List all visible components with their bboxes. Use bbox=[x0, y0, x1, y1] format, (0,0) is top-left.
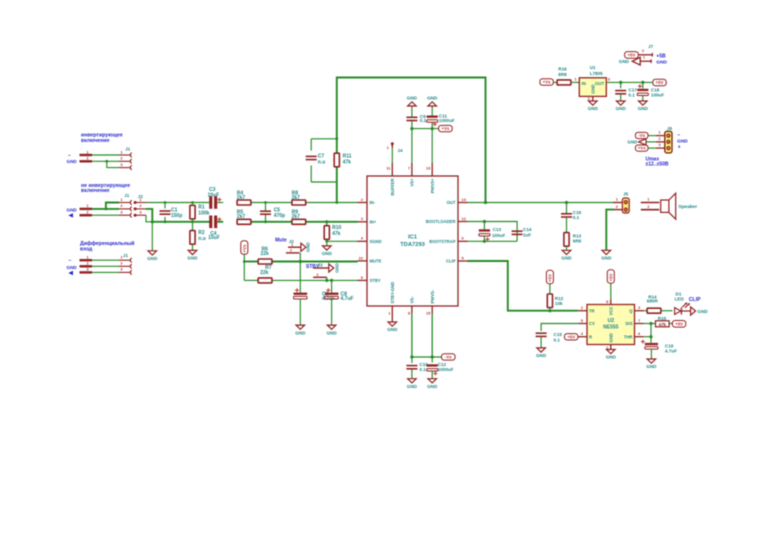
svg-text:-Vs: -Vs bbox=[638, 133, 645, 138]
svg-text:3: 3 bbox=[608, 77, 611, 82]
svg-text:n.u: n.u bbox=[318, 159, 326, 165]
svg-text:6R8: 6R8 bbox=[573, 239, 582, 244]
svg-text:J3: J3 bbox=[317, 262, 323, 267]
svg-text:BOOTSTRAP: BOOTSTRAP bbox=[429, 239, 455, 244]
svg-text:3: 3 bbox=[120, 162, 123, 167]
svg-text:GND: GND bbox=[147, 256, 158, 261]
svg-text:150p: 150p bbox=[171, 213, 182, 219]
svg-text:TDA7293: TDA7293 bbox=[400, 242, 426, 248]
svg-text:GND: GND bbox=[67, 207, 78, 212]
svg-text:2: 2 bbox=[139, 203, 142, 208]
svg-text:3: 3 bbox=[139, 210, 142, 215]
svg-text:1: 1 bbox=[120, 149, 123, 154]
svg-text:3: 3 bbox=[658, 142, 661, 147]
svg-text:STBY-GND: STBY-GND bbox=[390, 282, 395, 304]
svg-text:J1: J1 bbox=[123, 253, 129, 258]
svg-text:13: 13 bbox=[426, 166, 431, 171]
svg-text:J6: J6 bbox=[667, 126, 673, 131]
svg-text:C15: C15 bbox=[554, 332, 563, 337]
svg-text:–: – bbox=[69, 258, 72, 264]
svg-text:15: 15 bbox=[426, 311, 431, 316]
svg-text:DIS: DIS bbox=[626, 321, 633, 326]
svg-text:1uF: 1uF bbox=[523, 233, 531, 238]
svg-text:n.u: n.u bbox=[198, 236, 206, 242]
svg-text:C14: C14 bbox=[523, 227, 532, 232]
svg-text:2: 2 bbox=[581, 305, 584, 310]
svg-text:11: 11 bbox=[386, 166, 391, 171]
svg-text:+5V: +5V bbox=[656, 80, 664, 85]
svg-text:2k7: 2k7 bbox=[237, 195, 246, 201]
svg-text:2: 2 bbox=[642, 48, 645, 53]
svg-text:2: 2 bbox=[361, 197, 364, 202]
svg-text:+5B: +5B bbox=[656, 53, 666, 59]
svg-text:7: 7 bbox=[638, 318, 641, 323]
svg-text:10uF: 10uF bbox=[208, 235, 220, 241]
svg-text:GND: GND bbox=[67, 159, 78, 164]
svg-text:2: 2 bbox=[647, 204, 650, 209]
svg-text:THR: THR bbox=[624, 334, 633, 339]
svg-text:2k7: 2k7 bbox=[237, 214, 246, 220]
svg-text:0.1: 0.1 bbox=[554, 337, 561, 342]
svg-text:GND: GND bbox=[67, 265, 78, 270]
svg-text:GND: GND bbox=[561, 256, 572, 261]
svg-text:3: 3 bbox=[120, 267, 123, 272]
svg-text:PWVS-: PWVS- bbox=[430, 289, 435, 303]
svg-text:3: 3 bbox=[361, 216, 364, 221]
svg-text:J7: J7 bbox=[648, 44, 654, 49]
svg-text:1: 1 bbox=[574, 77, 577, 82]
svg-text:4.7uF: 4.7uF bbox=[665, 349, 677, 354]
svg-text:GND: GND bbox=[606, 355, 617, 360]
svg-text:GND: GND bbox=[387, 327, 398, 332]
svg-text:8: 8 bbox=[606, 299, 609, 304]
svg-text:100uF: 100uF bbox=[492, 233, 505, 238]
svg-text:+Vs: +Vs bbox=[242, 244, 247, 252]
svg-text:TR: TR bbox=[589, 308, 595, 313]
svg-text:GND: GND bbox=[590, 84, 595, 93]
svg-text:4: 4 bbox=[361, 236, 364, 241]
svg-text:47k: 47k bbox=[659, 322, 667, 327]
svg-text:GND: GND bbox=[656, 60, 667, 66]
svg-text:+5V: +5V bbox=[548, 274, 553, 282]
svg-text:включение: включение bbox=[81, 138, 110, 144]
svg-text:Speaker: Speaker bbox=[678, 204, 697, 210]
svg-text:6: 6 bbox=[638, 331, 641, 336]
svg-text:VS-: VS- bbox=[410, 296, 415, 304]
svg-text:BOOTLOADER: BOOTLOADER bbox=[426, 219, 456, 224]
svg-text:U2: U2 bbox=[608, 318, 615, 324]
svg-text:8: 8 bbox=[408, 311, 411, 316]
svg-text:2: 2 bbox=[658, 136, 661, 141]
svg-text:OUT: OUT bbox=[595, 81, 605, 86]
svg-text:GND: GND bbox=[187, 256, 198, 261]
svg-text:GND: GND bbox=[536, 353, 547, 358]
svg-text:2: 2 bbox=[120, 203, 123, 208]
svg-text:IN+: IN+ bbox=[370, 219, 377, 224]
svg-text:1: 1 bbox=[86, 203, 89, 208]
svg-text:MUTE: MUTE bbox=[370, 259, 382, 264]
svg-text:GND: GND bbox=[295, 330, 306, 335]
svg-text:1: 1 bbox=[86, 149, 89, 154]
svg-text:GND: GND bbox=[322, 251, 333, 256]
svg-text:+5V: +5V bbox=[609, 273, 614, 281]
svg-text:VS+: VS+ bbox=[410, 178, 415, 187]
svg-text:SGND: SGND bbox=[370, 239, 382, 244]
svg-text:2: 2 bbox=[120, 156, 123, 161]
svg-text:22k: 22k bbox=[261, 251, 270, 257]
svg-text:6: 6 bbox=[462, 236, 465, 241]
svg-text:1: 1 bbox=[387, 145, 390, 150]
svg-text:0.1: 0.1 bbox=[420, 118, 427, 123]
svg-text:10uF: 10uF bbox=[208, 192, 220, 198]
svg-text:NE555: NE555 bbox=[603, 325, 619, 331]
svg-text:0.1: 0.1 bbox=[628, 93, 635, 98]
svg-text:-Vs: -Vs bbox=[445, 355, 452, 360]
svg-text:3: 3 bbox=[638, 305, 641, 310]
svg-text:GND: GND bbox=[407, 384, 418, 389]
svg-text:47k: 47k bbox=[332, 231, 341, 237]
svg-text:GND: GND bbox=[646, 364, 657, 369]
svg-text:0.1: 0.1 bbox=[419, 367, 426, 372]
svg-text:R: R bbox=[589, 334, 592, 339]
svg-text:включение: включение bbox=[81, 188, 110, 194]
svg-text:2: 2 bbox=[86, 156, 89, 161]
svg-text:1: 1 bbox=[120, 197, 123, 202]
svg-text:+5V: +5V bbox=[567, 334, 575, 339]
svg-text:1: 1 bbox=[86, 255, 89, 260]
svg-text:9: 9 bbox=[361, 275, 364, 280]
svg-text:1000uF: 1000uF bbox=[438, 367, 454, 372]
svg-text:+Vs: +Vs bbox=[543, 80, 551, 85]
svg-text:+Vs: +Vs bbox=[638, 146, 646, 151]
svg-text:CV: CV bbox=[589, 321, 595, 326]
svg-text:J1: J1 bbox=[124, 193, 130, 198]
svg-text:+Vs: +Vs bbox=[441, 126, 449, 131]
svg-text:+: + bbox=[678, 144, 681, 150]
svg-text:PWVS+: PWVS+ bbox=[430, 178, 435, 193]
svg-text:1: 1 bbox=[658, 130, 661, 135]
svg-text:STBY: STBY bbox=[370, 278, 381, 283]
svg-text:GND: GND bbox=[427, 96, 438, 101]
svg-text:LED: LED bbox=[675, 297, 685, 302]
svg-text:L7805: L7805 bbox=[590, 71, 603, 76]
svg-text:J5: J5 bbox=[623, 192, 629, 197]
svg-text:10k: 10k bbox=[555, 301, 563, 306]
svg-text:CLIP: CLIP bbox=[689, 297, 701, 303]
svg-text:100k: 100k bbox=[198, 211, 209, 217]
svg-text:5: 5 bbox=[581, 318, 584, 323]
svg-text:GND: GND bbox=[638, 106, 649, 111]
svg-text:4.7uF: 4.7uF bbox=[341, 296, 354, 302]
svg-text:GND: GND bbox=[608, 333, 613, 342]
svg-text:GND: GND bbox=[326, 330, 337, 335]
svg-text:CLIP: CLIP bbox=[446, 259, 456, 264]
svg-text:12: 12 bbox=[462, 216, 467, 221]
svg-text:4: 4 bbox=[581, 331, 584, 336]
svg-text:GND: GND bbox=[616, 106, 627, 111]
svg-text:C13: C13 bbox=[493, 227, 502, 232]
svg-text:U1: U1 bbox=[590, 65, 596, 70]
svg-text:0.1: 0.1 bbox=[573, 215, 580, 220]
svg-text:J4: J4 bbox=[397, 148, 403, 153]
svg-text:IN-: IN- bbox=[370, 200, 376, 205]
svg-text:14: 14 bbox=[462, 197, 467, 202]
svg-text:2: 2 bbox=[290, 248, 293, 253]
svg-text:R15: R15 bbox=[658, 316, 667, 321]
svg-text:C19: C19 bbox=[665, 343, 674, 348]
svg-text:5: 5 bbox=[462, 255, 465, 260]
svg-text:J1: J1 bbox=[125, 147, 131, 152]
svg-text:22k: 22k bbox=[260, 270, 269, 276]
svg-text:100uF: 100uF bbox=[651, 93, 664, 98]
svg-text:7: 7 bbox=[408, 166, 411, 171]
svg-text:GND: GND bbox=[334, 263, 339, 273]
svg-text:470p: 470p bbox=[274, 213, 285, 219]
svg-text:2: 2 bbox=[120, 261, 123, 266]
svg-text:Mute: Mute bbox=[275, 238, 287, 244]
svg-text:1: 1 bbox=[647, 197, 650, 202]
svg-text:GND: GND bbox=[305, 242, 310, 252]
svg-text:GND: GND bbox=[698, 309, 709, 314]
svg-text:+5V: +5V bbox=[627, 53, 635, 58]
svg-text:IC1: IC1 bbox=[408, 234, 418, 240]
svg-text:2: 2 bbox=[86, 210, 89, 215]
svg-text:10: 10 bbox=[359, 255, 364, 260]
svg-text:2k7: 2k7 bbox=[292, 214, 301, 220]
svg-text:GND: GND bbox=[627, 140, 637, 145]
svg-text:вход: вход bbox=[80, 246, 93, 252]
svg-text:1: 1 bbox=[388, 311, 391, 316]
svg-text:VCC: VCC bbox=[608, 307, 613, 316]
svg-text:J2: J2 bbox=[138, 194, 144, 199]
svg-text:GND: GND bbox=[601, 256, 612, 261]
svg-text:2: 2 bbox=[316, 272, 319, 277]
svg-text:47k: 47k bbox=[343, 159, 352, 165]
svg-text:2: 2 bbox=[616, 204, 619, 209]
svg-text:680R: 680R bbox=[647, 299, 659, 304]
svg-text:1000uF: 1000uF bbox=[439, 118, 455, 123]
svg-text:GND: GND bbox=[588, 106, 599, 111]
svg-text:R16: R16 bbox=[558, 67, 567, 72]
svg-text:+5V: +5V bbox=[675, 322, 683, 327]
svg-text:GND: GND bbox=[407, 96, 418, 101]
svg-text:GND: GND bbox=[619, 59, 630, 64]
svg-text:1: 1 bbox=[616, 197, 619, 202]
svg-text:2k7: 2k7 bbox=[292, 195, 301, 201]
svg-text:3: 3 bbox=[120, 210, 123, 215]
svg-text:OUT: OUT bbox=[447, 200, 456, 205]
svg-text:8R8: 8R8 bbox=[558, 72, 567, 77]
svg-text:BUFFER: BUFFER bbox=[390, 179, 395, 196]
svg-text:–: – bbox=[68, 153, 71, 159]
svg-text:±12..±50В: ±12..±50В bbox=[646, 162, 669, 168]
svg-text:–: – bbox=[677, 132, 680, 138]
svg-text:IN: IN bbox=[582, 81, 586, 86]
svg-text:GND: GND bbox=[427, 384, 438, 389]
